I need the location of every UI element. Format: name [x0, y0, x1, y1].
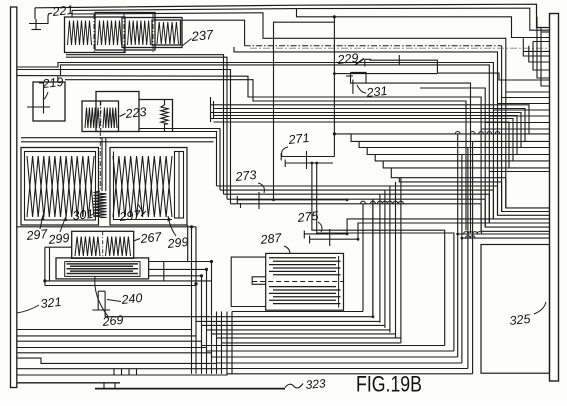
wire cascade corner: [492, 190, 494, 219]
leader 325: [534, 302, 546, 314]
component 271: [281, 156, 334, 158]
svg-text:237: 237: [190, 27, 215, 44]
wire 271 down a: [312, 163, 445, 346]
wire MR8 cascade: [391, 168, 506, 178]
wire 240 out: [105, 199, 373, 317]
wire y51.9: [234, 47, 550, 215]
svg-text:297: 297: [25, 227, 49, 243]
node dot: [190, 225, 193, 228]
svg-text:231: 231: [365, 84, 388, 100]
wire bottom bus: [17, 368, 468, 370]
wire lattice v2: [201, 276, 203, 374]
separator 267 dash: [102, 231, 104, 258]
component 273: [237, 199, 273, 201]
wire 275 ext a: [458, 233, 550, 235]
wire 267 frame b: [49, 247, 51, 281]
wire coil top a: [21, 137, 217, 139]
tick 229: [398, 55, 400, 66]
wire long vertical: [362, 204, 364, 312]
channel verticals: [101, 138, 103, 191]
serpentine 287 top: [269, 257, 336, 259]
wire nest line: [196, 320, 380, 322]
wire bar y67 step: [17, 63, 550, 219]
wire 275 up a: [347, 219, 493, 234]
border top wire: [35, 4, 550, 27]
wire hooks on 234 line: [464, 232, 469, 234]
wire T4 dash-dot: [182, 20, 245, 46]
coil small center: [94, 191, 107, 218]
wire bottom bus: [17, 341, 445, 345]
wire cascade corner: [501, 182, 503, 212]
wire mesh tr3: [533, 42, 550, 71]
svg-text:297: 297: [118, 208, 142, 224]
wire rmid 457.7: [457, 134, 459, 357]
component 219 inner: [43, 82, 45, 114]
wire hooks on 238 line: [466, 236, 471, 238]
wire cascade corner: [480, 204, 482, 232]
box 269 inner: [65, 262, 140, 277]
wire 287 left: [231, 257, 266, 306]
wire T5 dash: [250, 47, 550, 49]
wire 271 up: [333, 17, 335, 157]
wire S3: [211, 105, 530, 134]
wire mid bundle: [224, 193, 490, 195]
wire coil bottom: [17, 226, 196, 228]
component 231: [351, 72, 367, 83]
dashed mid 287: [252, 281, 343, 283]
svg-text:FIG.19B: FIG.19B: [356, 372, 422, 397]
wire mid bundle: [220, 189, 493, 191]
wire y88: [420, 88, 550, 227]
wire S6: [214, 116, 518, 155]
wire nest line: [217, 337, 401, 339]
leader 273: [258, 183, 264, 193]
separator dash-dot: [93, 14, 95, 54]
wire nest line: [212, 333, 396, 335]
wire MR9 cascade: [399, 178, 501, 182]
wire cascade corner: [488, 194, 490, 223]
wire mesh tr1: [523, 38, 549, 56]
wire 269 r3: [148, 275, 202, 277]
notch 287: [252, 277, 266, 285]
wire nest line: [202, 324, 385, 326]
border bottom left: [17, 382, 120, 384]
wire long vertical: [389, 186, 391, 333]
coil box left inner: [25, 152, 96, 221]
wire long vertical: [372, 199, 374, 317]
resistor R small vertical: [164, 100, 166, 106]
resistor R237a: [68, 21, 92, 46]
bus junction ticks: [113, 369, 115, 375]
coil box right inner: [114, 152, 173, 220]
wire MR2: [351, 134, 549, 142]
stub verticals: [210, 97, 212, 122]
wire nest line: [232, 311, 363, 313]
wire 229 lead: [370, 60, 550, 80]
wire mid bundle: [227, 198, 485, 200]
coil right return bar: [175, 152, 184, 219]
coil left winding 301: [27, 156, 94, 217]
rung y110: [493, 109, 549, 111]
wire W16 branch: [297, 9, 550, 38]
component 221 bracket: [48, 13, 52, 19]
wire 231 lead: [366, 83, 471, 233]
resistor R237c: [128, 21, 151, 46]
bottom foot ticks: [103, 383, 105, 389]
box 223: [82, 101, 119, 132]
junction dots misc: [333, 15, 336, 18]
svg-text:275: 275: [296, 209, 319, 225]
wire lattice v4: [211, 262, 213, 374]
wire S7: [211, 119, 514, 161]
resistor 223b: [103, 108, 117, 129]
coil box right outer: [110, 148, 187, 226]
wire S2: [65, 80, 466, 231]
wire mesh tr2: [529, 46, 550, 62]
leader 275: [318, 222, 322, 232]
resistor R237d: [157, 22, 179, 44]
tick 219: [27, 106, 50, 108]
component 240: [98, 290, 105, 292]
leader 323 squiggle: [285, 384, 303, 388]
box 223 outer: [96, 92, 139, 132]
leader 271: [282, 147, 288, 156]
leader 269: [95, 277, 108, 317]
wire bottom bus: [17, 353, 458, 357]
separator 223 dash: [100, 101, 102, 132]
svg-text:323: 323: [305, 376, 326, 392]
resistor 267a: [75, 237, 100, 257]
node top-left stub: [34, 8, 36, 19]
wire long vertical: [400, 178, 402, 343]
wire lattice v1b: [195, 227, 197, 374]
wire cascade corner: [484, 199, 486, 227]
wire nest line: [207, 329, 390, 331]
svg-text:223: 223: [124, 105, 147, 121]
wire rmid 467.9: [467, 148, 469, 369]
wire S4: [214, 109, 526, 142]
wire rmid 472.6: [472, 141, 474, 373]
rung y32: [541, 31, 550, 33]
rung y41.5: [533, 41, 550, 43]
leader 321: [17, 305, 39, 313]
svg-text:325: 325: [509, 312, 531, 328]
wire 267 frame: [44, 247, 46, 285]
resistor bank 237 box C: [122, 18, 182, 48]
wire 267 bottom a: [45, 280, 212, 282]
wire MR4: [367, 148, 549, 155]
rung y103.5: [498, 103, 550, 105]
wire S8: [214, 122, 510, 168]
box 267: [72, 231, 134, 258]
wire 273 lead ext: [274, 199, 348, 201]
wire hooks on 133.9 line: [455, 132, 460, 134]
wire mid bundle: [217, 185, 498, 187]
component 219 box: [33, 82, 65, 121]
leader 219: [43, 92, 48, 100]
svg-text:273: 273: [234, 168, 257, 184]
wire bottom bus: [17, 329, 192, 331]
wire coilbox drop: [187, 225, 189, 262]
tick 273: [258, 192, 260, 209]
svg-text:321: 321: [40, 295, 62, 311]
wire cascade corner: [497, 186, 499, 215]
wire MR5: [375, 155, 549, 161]
wire hooks on mid line: [360, 201, 365, 204]
svg-text:269: 269: [101, 313, 124, 329]
hatch 269: [67, 263, 139, 265]
resistor R237b: [98, 21, 122, 46]
wire 273 up: [274, 22, 335, 200]
svg-text:267: 267: [139, 230, 163, 246]
wire rmid 461.9: [461, 155, 463, 364]
border bottom wire: [95, 388, 285, 390]
wire 269 r2: [148, 268, 207, 270]
box 287 inner right: [338, 256, 340, 308]
svg-text:271: 271: [287, 131, 310, 147]
leader 223: [120, 114, 126, 117]
arrow 297 right: [138, 204, 144, 214]
border left bar: [11, 7, 17, 388]
wire MR3: [359, 141, 549, 147]
leader 267: [134, 239, 140, 242]
box 269 outer: [56, 258, 149, 279]
wire T2: [72, 8, 550, 30]
wire T3: [72, 13, 550, 208]
wire 271 down b: [317, 163, 454, 351]
leader 229 slash: [355, 59, 364, 66]
svg-text:287: 287: [259, 231, 283, 247]
box 223 right sub: [139, 100, 173, 132]
wire S5: [211, 113, 522, 148]
wire MR1: [334, 133, 549, 135]
wire bar y69.5: [17, 70, 231, 204]
wire cascade corner: [505, 178, 507, 208]
wire lattice v3: [206, 269, 208, 373]
svg-text:299: 299: [47, 231, 70, 247]
rung y92: [506, 91, 550, 93]
junction dots 269: [194, 282, 197, 285]
svg-text:299: 299: [166, 235, 189, 251]
coil box left outer: [21, 148, 99, 226]
serpentine 287 bottom: [269, 286, 336, 288]
wire 275 ext b: [462, 237, 550, 239]
lattice lower verticals: [216, 312, 218, 374]
component 229: [364, 59, 366, 66]
wire bank bottom a: [66, 55, 224, 195]
wire bus 363 step: [17, 358, 462, 363]
wire lattice v1: [191, 227, 193, 374]
wire mid bundle: [231, 203, 482, 205]
wire step y64.9: [61, 65, 550, 223]
wire long vertical: [384, 190, 386, 328]
box 287: [266, 253, 344, 310]
wire 219 up: [57, 76, 59, 82]
resistor bank 237 box B: [95, 13, 155, 51]
wire nest line: [222, 342, 401, 344]
resistor bank 237 box A: [65, 17, 126, 53]
leader 240: [107, 300, 121, 302]
box 325: [481, 245, 550, 374]
wire bottom bus 9: [17, 374, 473, 375]
wire mesh tr4: [541, 28, 550, 87]
coil right winding 297: [113, 156, 172, 217]
wire 275 up b: [358, 223, 489, 239]
leader 231: [357, 85, 366, 93]
wire coil top b: [21, 141, 214, 143]
svg-text:240: 240: [120, 291, 143, 307]
arrow 297 left: [40, 215, 43, 229]
leader 287: [284, 246, 290, 254]
rung y97.5: [502, 97, 550, 99]
wire long vertical: [395, 182, 397, 338]
resistor 267b: [106, 237, 131, 257]
wire 267 bottom b: [45, 285, 196, 287]
arrow 299 right: [168, 216, 176, 236]
rung y116: [489, 115, 549, 117]
rung y51.4: [523, 50, 549, 52]
wire mesh tr5: [537, 17, 550, 78]
border right bar: [550, 14, 559, 382]
wire 269 r1: [148, 261, 212, 263]
resistor 223a: [85, 108, 100, 129]
wire bottom bus: [17, 348, 454, 352]
resistor bank 237 box D: [152, 20, 181, 45]
tick 271: [306, 151, 308, 169]
svg-text:219: 219: [41, 75, 64, 91]
wire bank bottom b: [66, 57, 227, 199]
wire 267 right vert: [163, 262, 165, 281]
leader 237: [182, 39, 192, 47]
rung y129: [481, 128, 549, 130]
rung y122.5: [485, 122, 549, 124]
wire long vertical: [379, 194, 381, 322]
wire MR6: [383, 161, 549, 168]
wire y128.5: [139, 129, 220, 191]
wire bottom bus: [17, 335, 196, 337]
component 275: [304, 233, 347, 235]
wire S1: [17, 76, 550, 232]
wire MR7 rung: [489, 171, 549, 173]
arrow 299 left: [60, 216, 66, 232]
wire 223 bottom long: [82, 132, 217, 187]
dash-dot link: [99, 101, 101, 190]
tick 275: [329, 229, 331, 246]
